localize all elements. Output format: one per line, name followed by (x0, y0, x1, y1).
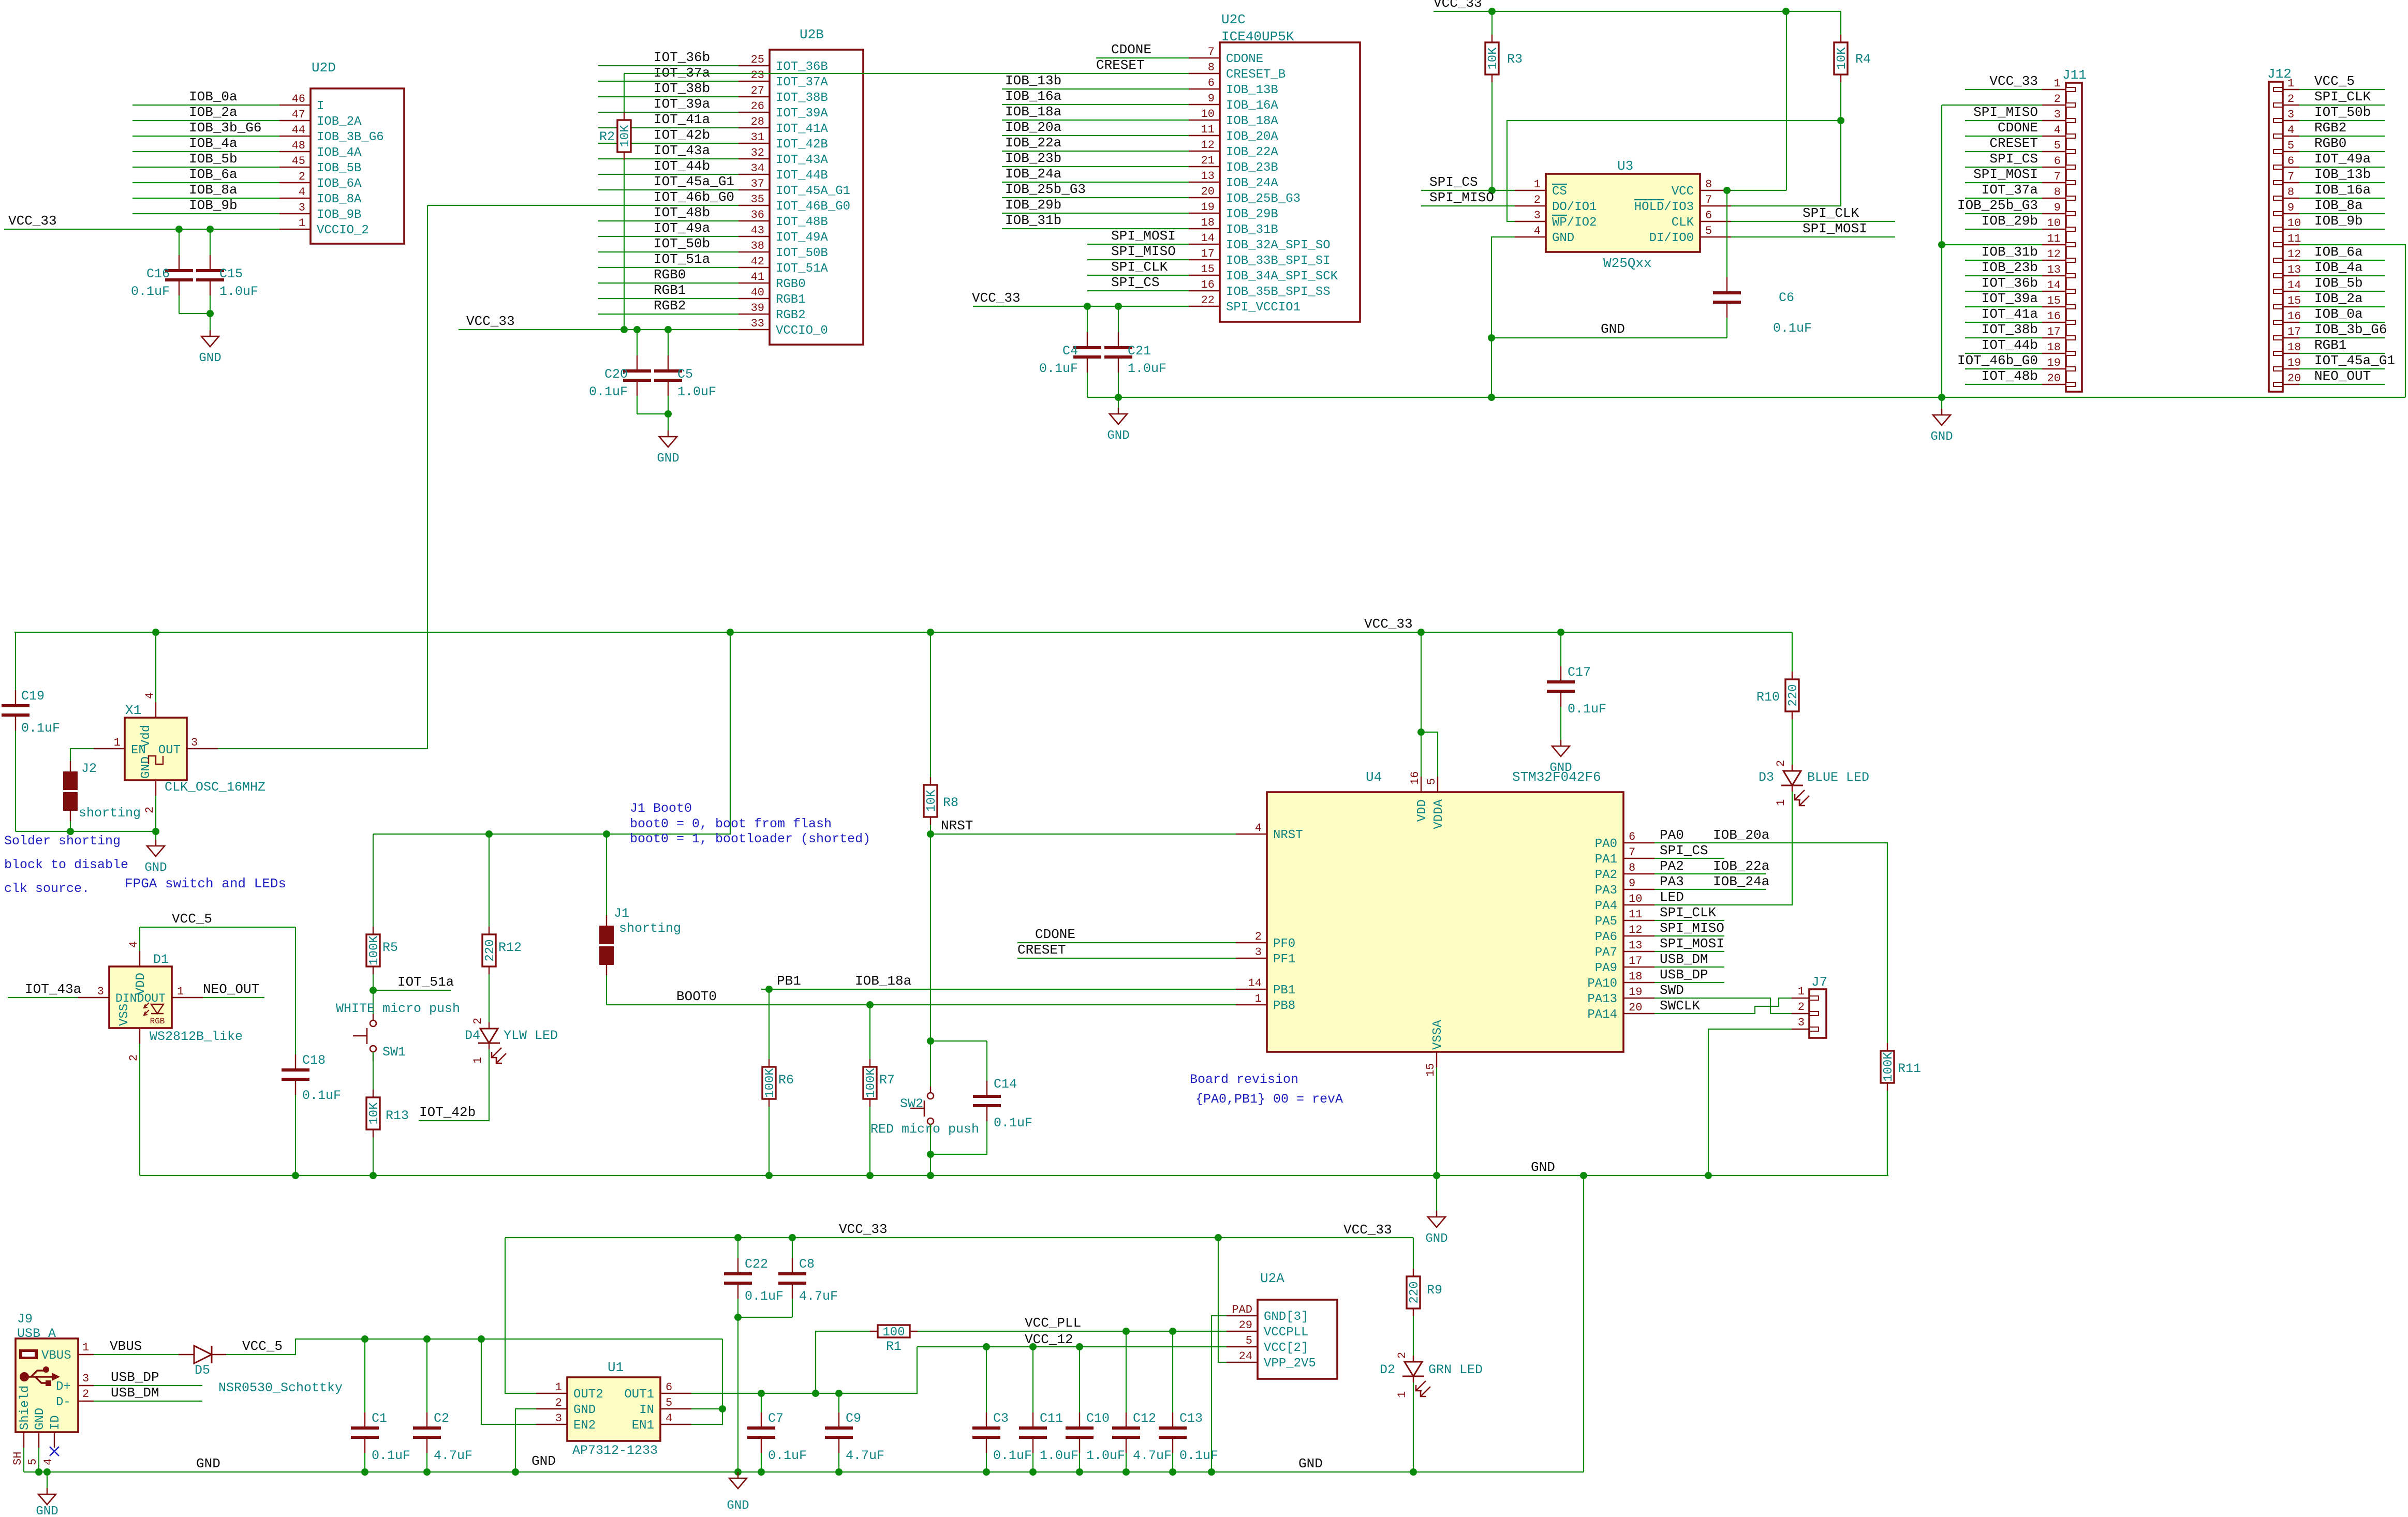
svg-text:C11: C11 (1040, 1411, 1063, 1426)
wire net IOB_2a J12.15 (2299, 306, 2385, 307)
svg-text:20: 20 (1201, 185, 1215, 198)
capacitor C12 4.7uF (1126, 1331, 1127, 1412)
svg-text:PF0: PF0 (1273, 937, 1295, 951)
svg-text:C12: C12 (1133, 1411, 1156, 1426)
svg-text:IOB_3B_G6: IOB_3B_G6 (317, 130, 384, 144)
svg-text:W25Qxx: W25Qxx (1603, 256, 1652, 271)
svg-text:0.1uF: 0.1uF (768, 1448, 807, 1463)
svg-text:18: 18 (1629, 970, 1642, 983)
J12 pin 15 (2283, 306, 2299, 307)
U2A pin 5 VCC[2] (1227, 1346, 1258, 1347)
svg-text:IOB_23b: IOB_23b (1982, 260, 2038, 275)
wire net SPI_MISO J11.3 (1965, 120, 2042, 121)
svg-text:IOT_38b: IOT_38b (654, 81, 710, 96)
junction U1 gnd (512, 1468, 519, 1476)
wire PA0 to R11 (1654, 843, 1887, 1043)
svg-text:IOB_23b: IOB_23b (1005, 151, 1061, 166)
svg-text:1.0uF: 1.0uF (1040, 1448, 1079, 1463)
svg-text:IOT_49A: IOT_49A (776, 231, 828, 245)
junction C5 tap (664, 326, 672, 333)
junction J9 gnd symbol (43, 1468, 51, 1476)
J11 pin 7 (2042, 182, 2066, 183)
svg-text:PF1: PF1 (1273, 953, 1295, 966)
wire IOT_42b from D4 (419, 1049, 489, 1121)
svg-text:GND: GND (1107, 429, 1129, 443)
U1 pin 3 EN2 (536, 1424, 567, 1425)
junction R7 BOOT0 (866, 1001, 874, 1008)
wire VCC_5 rail D1 (140, 927, 296, 928)
wire net IOB_16a (1002, 104, 1189, 105)
svg-text:VCCIO_2: VCCIO_2 (317, 224, 369, 237)
J12 pin 16 (2283, 322, 2299, 323)
svg-text:PA1: PA1 (1595, 853, 1617, 867)
wire net IOT_48b J11.20 (1965, 384, 2042, 385)
svg-text:PA3: PA3 (1595, 884, 1617, 898)
U4 pin 16 VDD (1421, 777, 1422, 792)
U2B pin 36 IOT_48B (738, 220, 770, 221)
svg-text:IOT_37a: IOT_37a (1982, 182, 2038, 198)
ground symbol C22 branch (737, 1472, 738, 1478)
wire net IOT_37a J11.8 (1965, 198, 2042, 199)
wire EN2 to VCC_5 (481, 1339, 536, 1424)
wire net IOB_6a (132, 182, 279, 183)
wire J2 to gnd bus (70, 821, 71, 831)
wire net IOB_9b (132, 213, 279, 214)
U2B pin 43 IOT_49A (738, 236, 770, 237)
svg-text:NEO_OUT: NEO_OUT (203, 981, 259, 997)
svg-text:C16: C16 (146, 266, 170, 281)
svg-text:HOLD/IO3: HOLD/IO3 (1634, 200, 1694, 214)
jumper J2 shorting (63, 771, 78, 790)
svg-text:IOB_23B: IOB_23B (1226, 161, 1278, 175)
wire USB_DP from PA10 (1654, 982, 1724, 983)
J12 pin 17 (2283, 337, 2299, 338)
svg-text:USB_DM: USB_DM (1660, 951, 1708, 967)
svg-text:GND[3]: GND[3] (1264, 1310, 1308, 1324)
svg-text:20: 20 (1629, 1001, 1642, 1014)
junction NRST (927, 830, 934, 838)
svg-text:PA2: PA2 (1595, 868, 1617, 882)
wire SW2 to gnd rail (930, 1154, 931, 1176)
wire J1 to BOOT0 (606, 975, 607, 1005)
wire net SPI_MISO (1087, 259, 1189, 260)
svg-text:46: 46 (292, 93, 305, 106)
svg-text:IOB_24A: IOB_24A (1226, 176, 1278, 190)
svg-text:SW1: SW1 (382, 1045, 406, 1060)
D1 pin 2 VSS (139, 1028, 140, 1044)
svg-text:33: 33 (751, 317, 764, 330)
svg-text:U1: U1 (608, 1360, 624, 1375)
wire net IOT_43a (598, 158, 738, 159)
svg-text:1: 1 (1255, 992, 1262, 1005)
junction R6 PB1 (765, 986, 773, 993)
svg-text:C6: C6 (1779, 290, 1794, 305)
U4 pin 15 VSSA (1436, 1052, 1437, 1067)
wire J7.3 to gnd (1708, 1029, 1792, 1176)
wire net IOT_36b (598, 65, 738, 66)
wire net RGB2 J12.4 (2299, 136, 2385, 137)
U2C pin 20 IOB_25B_G3 (1189, 197, 1220, 198)
wire net IOT_39a (598, 112, 738, 113)
svg-text:SPI_MISO: SPI_MISO (1111, 244, 1176, 259)
svg-text:J11: J11 (2062, 67, 2087, 83)
wire net IOB_3b_G6 J12.17 (2299, 337, 2385, 338)
svg-text:18: 18 (2047, 341, 2061, 354)
svg-text:IOB_25B_G3: IOB_25B_G3 (1226, 192, 1301, 206)
svg-text:BLUE LED: BLUE LED (1807, 770, 1869, 785)
svg-text:38: 38 (751, 240, 764, 252)
LED D2 GRN (1405, 1362, 1422, 1376)
U2B pin 32 IOT_43A (738, 158, 770, 159)
wire net VCC_33 J11.1 (1965, 89, 2042, 90)
wire net IOT_36b J11.14 (1965, 291, 2042, 292)
wire net IOT_50b (598, 251, 738, 252)
J11 pin 10 (2042, 229, 2066, 230)
U4 pin 6 PA0 (1623, 842, 1654, 843)
svg-text:U2D: U2D (312, 60, 336, 76)
svg-text:15: 15 (2047, 294, 2061, 307)
svg-text:USB_DP: USB_DP (111, 1370, 159, 1385)
wire HOLD/IO3 riser (1731, 121, 1841, 206)
svg-text:IOT_43a: IOT_43a (25, 981, 81, 997)
svg-text:4.7uF: 4.7uF (799, 1289, 838, 1304)
U2C pin 9 IOB_16A (1189, 104, 1220, 105)
svg-text:D3: D3 (1759, 770, 1774, 785)
capacitor C17 0.1uF (1560, 632, 1561, 666)
svg-text:VBUS: VBUS (41, 1349, 71, 1363)
svg-text:1.0uF: 1.0uF (1128, 361, 1166, 376)
U3 pin 6 CLK (1700, 221, 1731, 222)
wire D2 to gnd (1413, 1382, 1414, 1472)
svg-text:CDONE: CDONE (1998, 120, 2038, 136)
svg-text:PA9: PA9 (1595, 961, 1617, 975)
svg-text:2: 2 (1798, 1001, 1805, 1014)
wire C4 C21 gnd join (1087, 397, 1118, 398)
svg-text:PA14: PA14 (1587, 1008, 1617, 1022)
wire C22-C8 join to gnd (738, 1317, 792, 1318)
capacitor C7 0.1uF (761, 1393, 762, 1412)
svg-text:ID: ID (49, 1415, 63, 1430)
ground symbol below C5 (668, 414, 669, 437)
LED D3 BLUE (1783, 771, 1801, 785)
wire net IOT_44b J11.18 (1965, 353, 2042, 354)
svg-text:4: 4 (299, 186, 305, 199)
svg-text:IOB_2a: IOB_2a (189, 105, 238, 120)
svg-text:2: 2 (471, 1018, 484, 1024)
svg-text:VCC_33: VCC_33 (1989, 73, 2038, 89)
junction C15 tap (206, 226, 214, 233)
svg-text:26: 26 (751, 100, 764, 113)
wire C6 gnd join (1491, 337, 1727, 338)
svg-text:clk source.: clk source. (4, 881, 90, 896)
wire net RGB1 J12.18 (2299, 353, 2385, 354)
junction X1 Vdd (152, 629, 159, 636)
svg-text:CRESET_B: CRESET_B (1226, 68, 1286, 82)
svg-text:VCC_33: VCC_33 (8, 213, 57, 229)
wire VCC_33 to U2D (4, 229, 279, 230)
svg-text:R8: R8 (943, 795, 958, 810)
wire VCC_33 to U2C (973, 306, 1189, 307)
wire VCC_33 mid trunk (14, 632, 1792, 633)
svg-text:IOT_46B_G0: IOT_46B_G0 (776, 200, 850, 214)
svg-text:Shield: Shield (18, 1386, 32, 1430)
U4 pin 14 PB1 (1236, 989, 1267, 990)
svg-text:VCC_5: VCC_5 (2314, 73, 2355, 89)
capacitor C8 4.7uF (792, 1238, 793, 1258)
D1 pin 3 DIN (78, 997, 109, 998)
capacitor C11 1.0uF (1032, 1347, 1033, 1412)
wire J11.2 to GND riser (1942, 105, 2042, 106)
junction cap gnd (1076, 1468, 1083, 1476)
U2C pin 21 IOB_23B (1189, 166, 1220, 167)
wire net IOT_50b J12.3 (2299, 120, 2385, 121)
svg-text:8: 8 (2054, 186, 2061, 199)
svg-text:IOT_49a: IOT_49a (654, 220, 710, 236)
svg-text:IOT_45a_G1: IOT_45a_G1 (2314, 353, 2395, 368)
junction X1 gnd (152, 828, 159, 835)
resistor R9 220 (1413, 1238, 1414, 1269)
svg-text:2: 2 (2054, 93, 2061, 106)
U2D pin 3 IOB_9B (279, 213, 311, 214)
svg-text:0.1uF: 0.1uF (1773, 321, 1812, 336)
junction VSSA gnd (1433, 1172, 1440, 1179)
svg-text:J1: J1 (614, 906, 629, 921)
U2C pin 22 SPI_VCCIO1 (1189, 306, 1220, 307)
svg-text:VDD: VDD (1415, 799, 1429, 822)
svg-text:PAD: PAD (1232, 1303, 1252, 1316)
svg-text:10K: 10K (1486, 47, 1500, 70)
svg-text:GND: GND (196, 1456, 220, 1471)
wire net CDONE J11.4 (1965, 136, 2042, 137)
svg-text:GND: GND (573, 1403, 596, 1417)
svg-text:CRESET: CRESET (1096, 57, 1145, 73)
svg-text:8: 8 (1705, 178, 1712, 191)
svg-text:D-: D- (56, 1395, 71, 1409)
svg-text:PA0: PA0 (1660, 827, 1684, 843)
svg-text:21: 21 (1201, 154, 1215, 167)
svg-text:R6: R6 (778, 1073, 794, 1088)
svg-text:VPP_2V5: VPP_2V5 (1264, 1357, 1316, 1371)
J12 pin 7 (2283, 182, 2299, 183)
svg-text:6: 6 (1705, 209, 1712, 222)
wire USB_DP from J9 (94, 1385, 202, 1386)
svg-text:IOB_9b: IOB_9b (2314, 213, 2363, 229)
J11 pin 2 (2042, 105, 2066, 106)
wire VPP riser (1218, 1238, 1227, 1362)
svg-text:IOB_22a: IOB_22a (1005, 135, 1061, 151)
U2B pin 40 RGB1 (738, 298, 770, 299)
wire C14 branch (930, 1040, 987, 1042)
svg-text:IOB_31b: IOB_31b (1982, 244, 2038, 260)
svg-text:2: 2 (127, 1054, 140, 1061)
wire U1 IN (691, 1408, 722, 1409)
svg-text:RGB0: RGB0 (2314, 136, 2346, 151)
junction C14 branch (927, 1037, 934, 1045)
svg-text:RGB1: RGB1 (654, 282, 686, 298)
U4 pin 17 PA9 (1623, 966, 1654, 968)
junction C18 gnd (292, 1172, 299, 1179)
svg-text:1: 1 (299, 217, 305, 230)
svg-text:IOB_18a: IOB_18a (855, 973, 911, 989)
svg-text:10K: 10K (925, 790, 939, 812)
junction D2 gnd (1410, 1468, 1417, 1476)
svg-text:3: 3 (97, 985, 104, 998)
wire net CRESET J11.5 (1965, 151, 2042, 152)
svg-text:U2B: U2B (800, 27, 824, 42)
svg-text:IOB_16a: IOB_16a (2314, 182, 2371, 198)
svg-text:IOB_13b: IOB_13b (1005, 73, 1061, 88)
junction cap gnd (1029, 1468, 1037, 1476)
svg-text:Board revision: Board revision (1190, 1072, 1298, 1087)
wire net IOB_3b_G6 (132, 136, 279, 137)
svg-text:C22: C22 (745, 1257, 768, 1272)
J12 pin 3 (2283, 120, 2299, 121)
wire SPI_CLK from U3 (1731, 221, 1895, 222)
svg-text:2: 2 (1534, 194, 1541, 206)
J12 pin 2 (2283, 105, 2299, 106)
svg-text:SPI_MISO: SPI_MISO (1429, 190, 1494, 205)
U2D pin 47 IOB_2A (279, 120, 311, 121)
wire net IOT_42b (598, 143, 738, 144)
svg-text:C2: C2 (434, 1411, 449, 1426)
wire PA2 (1654, 873, 1766, 874)
svg-text:10: 10 (2287, 217, 2301, 230)
svg-text:3: 3 (2287, 108, 2294, 121)
svg-text:C3: C3 (993, 1411, 1009, 1426)
svg-text:U2A: U2A (1260, 1271, 1284, 1286)
U1 pin 5 IN (660, 1408, 691, 1409)
U4 pin 9 PA3 (1623, 889, 1654, 890)
U1 pin 4 EN1 (660, 1424, 691, 1425)
svg-text:CDONE: CDONE (1111, 42, 1151, 57)
resistor R11 100K (1881, 1051, 1894, 1083)
svg-text:4: 4 (2287, 124, 2294, 137)
J12 pin 20 (2283, 384, 2299, 385)
svg-text:NSR0530_Schottky: NSR0530_Schottky (218, 1380, 343, 1395)
U2B pin 37 IOT_45A_G1 (738, 189, 770, 190)
svg-text:IOT_36B: IOT_36B (776, 60, 828, 74)
svg-text:C8: C8 (799, 1257, 815, 1272)
wire mid gnd rail (140, 1175, 1888, 1176)
junction C22 (734, 1234, 742, 1241)
J12 pin 10 (2283, 229, 2299, 230)
svg-text:RGB0: RGB0 (776, 277, 806, 291)
svg-text:IOT_50B: IOT_50B (776, 246, 828, 260)
svg-text:0.1uF: 0.1uF (1568, 702, 1606, 717)
diode D5 NSR0530 Schottky (179, 1354, 194, 1355)
J12 pin 13 (2283, 275, 2299, 276)
svg-text:GND: GND (1930, 430, 1953, 444)
svg-text:IOT_48B: IOT_48B (776, 215, 828, 229)
svg-text:SWCLK: SWCLK (1660, 998, 1700, 1014)
svg-text:IOB_5b: IOB_5b (2314, 275, 2363, 291)
J12 pin 1 (2283, 89, 2299, 90)
svg-text:16: 16 (1201, 278, 1215, 291)
svg-text:IOB_0a: IOB_0a (2314, 306, 2363, 322)
svg-text:IOT_48b: IOT_48b (1982, 368, 2038, 384)
wire CRESET to PF1 (1017, 958, 1236, 959)
wire clock gnd bus (16, 831, 156, 832)
svg-text:GND: GND (1425, 1232, 1447, 1246)
svg-text:IOB_20A: IOB_20A (1226, 130, 1278, 144)
wire J11 GND riser (1941, 105, 1942, 397)
svg-text:IOB_13b: IOB_13b (2314, 167, 2371, 182)
junction C16 tap (175, 226, 183, 233)
U2A pin 29 VCCPLL (1227, 1331, 1258, 1332)
svg-text:27: 27 (751, 84, 764, 97)
svg-text:IOB_8a: IOB_8a (189, 182, 238, 198)
U4 pin 7 PA1 (1623, 858, 1654, 859)
svg-text:11: 11 (2047, 232, 2061, 245)
wire net IOB_31b J11.12 (1965, 260, 2042, 261)
svg-text:VCC_33: VCC_33 (1434, 0, 1482, 11)
svg-text:4: 4 (666, 1412, 672, 1425)
svg-text:32: 32 (751, 146, 764, 159)
svg-text:IOB_29B: IOB_29B (1226, 207, 1278, 221)
wire VBUS to D5 (94, 1354, 179, 1355)
svg-text:R1: R1 (886, 1339, 902, 1354)
wire net NEO_OUT J12.20 (2299, 384, 2385, 385)
svg-text:7: 7 (1705, 194, 1712, 206)
svg-text:U4: U4 (1366, 769, 1382, 785)
wire net IOB_29b J11.10 (1965, 229, 2042, 230)
svg-text:SPI_CLK: SPI_CLK (1660, 905, 1717, 920)
svg-text:CRESET: CRESET (1989, 136, 2038, 151)
svg-text:C17: C17 (1568, 665, 1591, 680)
capacitor C6 0.1uF (1726, 190, 1727, 277)
J12 pin 8 (2283, 198, 2299, 199)
svg-text:SPI_CS: SPI_CS (1429, 174, 1478, 190)
U3 pin 1 CS (1515, 190, 1546, 191)
svg-text:VCC: VCC (1672, 185, 1694, 199)
junction C1 gnd (361, 1468, 368, 1476)
junction C17 tap (1557, 629, 1564, 636)
svg-text:CLK_OSC_16MHZ: CLK_OSC_16MHZ (165, 780, 265, 795)
U2C pin 19 IOB_29B (1189, 213, 1220, 214)
wire gnd link to bottom (1583, 1176, 1584, 1472)
svg-text:PA2: PA2 (1660, 858, 1684, 874)
J11 pin 9 (2042, 213, 2066, 214)
svg-text:IOT_42b: IOT_42b (654, 127, 710, 143)
wire net SPI_CLK J12.2 (2299, 105, 2385, 106)
svg-text:boot0 = 0, boot from flash: boot0 = 0, boot from flash (630, 816, 832, 831)
svg-text:SPI_MOSI: SPI_MOSI (1803, 221, 1867, 236)
wire net SPI_CLK (1087, 275, 1189, 276)
junction J9 gnd (35, 1468, 42, 1476)
capacitor C19 0.1uF (14, 632, 16, 633)
U4 pin 2 PF0 (1236, 942, 1267, 943)
svg-text:10: 10 (2047, 217, 2061, 230)
U1 pin 1 OUT2 (536, 1393, 567, 1394)
J11 pin 8 (2042, 198, 2066, 199)
svg-text:10K: 10K (367, 1102, 381, 1125)
svg-text:SPI_CLK: SPI_CLK (2314, 89, 2371, 105)
svg-text:CRESET: CRESET (1017, 942, 1066, 958)
J11 pin 12 (2042, 260, 2066, 261)
wire SPI_CLK from PA5 (1654, 920, 1724, 921)
svg-text:IOT_46b_G0: IOT_46b_G0 (654, 189, 734, 205)
X1 pin 3 OUT (187, 748, 218, 749)
U4 pin 1 PB8 (1236, 1004, 1267, 1005)
svg-text:IOT_41A: IOT_41A (776, 122, 828, 136)
svg-text:1: 1 (1798, 985, 1805, 998)
svg-text:1: 1 (177, 985, 184, 998)
svg-text:220: 220 (1408, 1281, 1422, 1303)
U2B pin 25 IOT_36B (738, 65, 770, 66)
wire NEO_OUT from DOUT (203, 997, 264, 998)
svg-text:D+: D+ (56, 1380, 71, 1394)
wire PAD to gnd (1212, 1316, 1227, 1472)
